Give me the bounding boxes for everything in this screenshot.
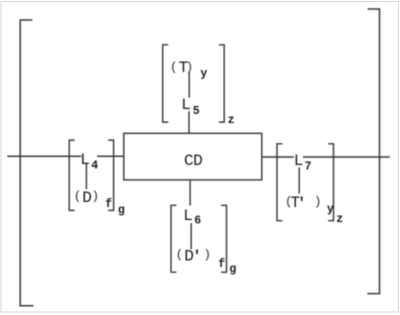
- wire CD box to L7: [262, 156, 293, 158]
- right group bracket left: [277, 144, 282, 221]
- svg-text:y: y: [327, 203, 334, 216]
- CD box: [124, 133, 262, 180]
- outer bracket left: [20, 20, 33, 306]
- wire CD box to L6: [189, 180, 191, 205]
- left group bracket left: [69, 140, 74, 210]
- svg-text:(: (: [170, 61, 177, 75]
- svg-text:L: L: [183, 207, 193, 225]
- svg-text:D: D: [193, 152, 203, 170]
- svg-text:f: f: [218, 258, 225, 271]
- bottom group bracket left: [171, 205, 176, 272]
- left group bracket right: [109, 140, 114, 210]
- svg-text:6: 6: [194, 215, 201, 228]
- outer bracket right: [368, 9, 379, 294]
- wire L7 to (T'): [298, 168, 300, 193]
- svg-text:L: L: [80, 151, 90, 169]
- bottom group bracket right: [222, 205, 227, 272]
- svg-text:': ': [193, 248, 202, 265]
- svg-text:z: z: [336, 213, 343, 226]
- svg-text:D: D: [82, 189, 92, 207]
- svg-text:): ): [186, 61, 193, 75]
- top group bracket right: [220, 45, 225, 122]
- svg-text:': ': [297, 195, 306, 212]
- wire (T) to L5: [188, 73, 190, 97]
- svg-text:): ): [314, 195, 321, 209]
- svg-text:): ): [92, 190, 99, 204]
- svg-text:7: 7: [305, 161, 312, 174]
- svg-text:y: y: [200, 68, 207, 81]
- wire L4 to CD box: [98, 155, 124, 157]
- svg-text:5: 5: [193, 105, 200, 118]
- svg-text:g: g: [229, 263, 236, 276]
- main horizontal backbone wire right: [304, 156, 389, 158]
- svg-text:L: L: [294, 152, 304, 170]
- svg-text:g: g: [118, 204, 125, 217]
- svg-text:z: z: [228, 114, 235, 127]
- right group bracket right: [329, 144, 334, 221]
- main horizontal backbone wire left: [8, 155, 81, 157]
- wire L4 to (D): [85, 165, 87, 189]
- top group bracket left: [163, 45, 168, 122]
- svg-text:(: (: [74, 190, 81, 204]
- svg-text:(: (: [176, 248, 183, 262]
- wire L5 to CD box: [188, 112, 190, 133]
- svg-text:L: L: [181, 96, 191, 114]
- svg-text:): ): [204, 248, 211, 262]
- wire L6 to (D'): [190, 224, 192, 249]
- svg-text:4: 4: [91, 159, 98, 172]
- svg-text:f: f: [105, 198, 112, 211]
